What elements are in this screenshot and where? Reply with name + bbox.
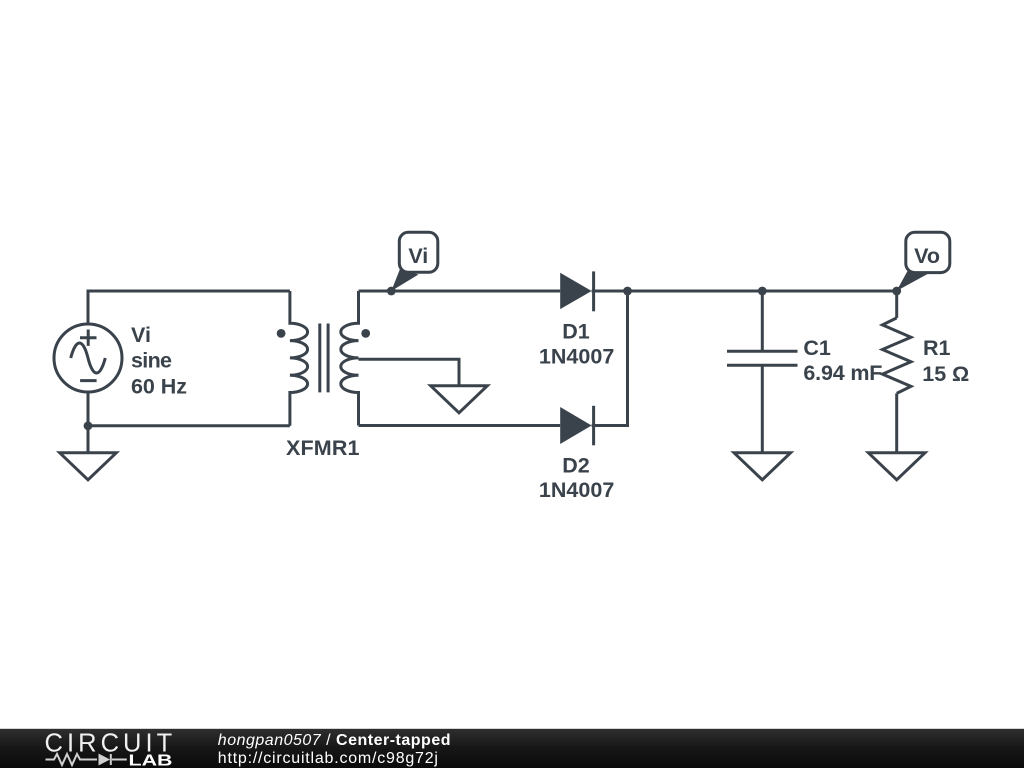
svg-text:sine: sine (131, 349, 172, 373)
svg-text:6.94 mF: 6.94 mF (803, 361, 882, 385)
svg-text:D1: D1 (562, 320, 590, 344)
svg-text:R1: R1 (923, 336, 951, 360)
svg-text:http://circuitlab.com/c98g72j: http://circuitlab.com/c98g72j (218, 750, 439, 767)
svg-text:XFMR1: XFMR1 (286, 436, 360, 460)
svg-text:D2: D2 (562, 454, 590, 478)
svg-text:60 Hz: 60 Hz (131, 374, 187, 398)
svg-text:Vo: Vo (914, 244, 940, 268)
svg-text:C1: C1 (803, 336, 831, 360)
svg-text:Vi: Vi (131, 323, 151, 347)
svg-text:Vi: Vi (408, 244, 428, 268)
svg-text:15 Ω: 15 Ω (922, 362, 969, 386)
svg-text:1N4007: 1N4007 (539, 344, 615, 368)
svg-text:hongpan0507 / Center-tapped: hongpan0507 / Center-tapped (218, 732, 451, 749)
svg-text:LAB: LAB (129, 753, 173, 768)
svg-text:1N4007: 1N4007 (539, 478, 615, 502)
